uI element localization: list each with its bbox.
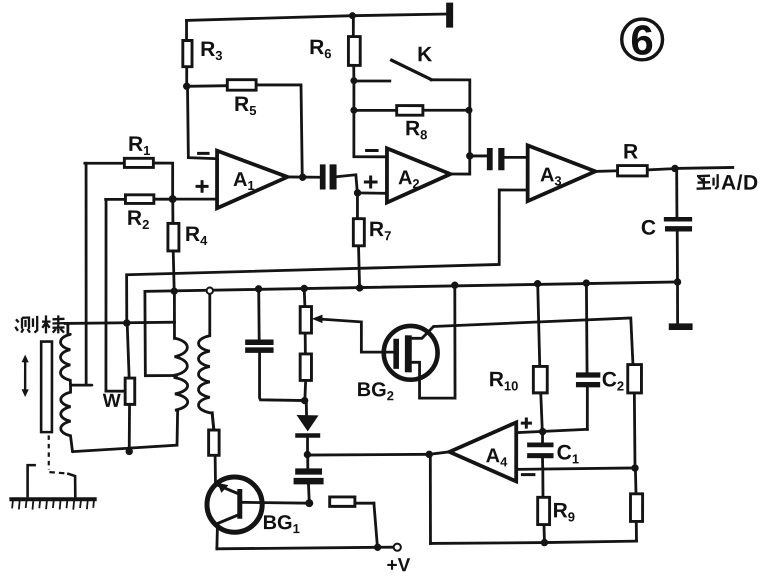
svg-text:K: K (417, 43, 432, 66)
svg-text:R: R (623, 140, 638, 163)
svg-text:+V: +V (387, 555, 411, 576)
svg-text:C: C (641, 216, 656, 239)
svg-text:W: W (103, 391, 121, 412)
svg-text:A/D: A/D (721, 172, 759, 195)
svg-text:6: 6 (630, 16, 653, 63)
